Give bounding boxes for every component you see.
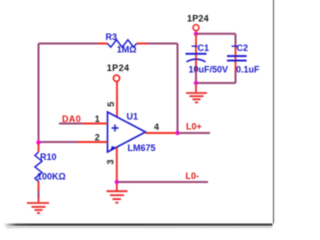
wire cap top rail <box>196 33 236 35</box>
ground (pin3) <box>107 184 128 203</box>
svg-text:4: 4 <box>154 122 159 132</box>
svg-text:5: 5 <box>106 102 116 107</box>
wire feedback vertical <box>177 44 179 134</box>
op-amp U1 <box>108 111 156 153</box>
pin 4 stub <box>146 132 178 134</box>
pin 1 stub <box>83 123 108 125</box>
frame right edge <box>273 0 275 224</box>
svg-text:10uF/50V: 10uF/50V <box>189 64 229 74</box>
svg-text:DA0: DA0 <box>62 114 81 124</box>
svg-text:C1: C1 <box>198 43 210 53</box>
capacitor C2 <box>227 43 260 74</box>
svg-text:L0+: L0+ <box>186 122 202 132</box>
svg-text:1MΩ: 1MΩ <box>117 44 137 54</box>
power port 1P24 (op-amp) <box>107 63 130 118</box>
resistor R10 <box>35 143 66 191</box>
capacitor C1 <box>186 34 229 74</box>
svg-text:L0-: L0- <box>186 171 200 181</box>
svg-text:R10: R10 <box>40 152 57 162</box>
resistor R3 <box>98 32 147 55</box>
pin 2 stub <box>78 141 108 143</box>
junction dot cap top <box>194 32 198 36</box>
wire top horizontal (corner to R3) <box>39 43 99 45</box>
wire C1 bottom <box>195 71 197 84</box>
svg-text:R3: R3 <box>106 32 118 42</box>
junction dot output <box>175 131 179 135</box>
wire R10 to ground <box>38 191 40 199</box>
junction dot pin3 <box>115 180 119 184</box>
junction dot cap bottom <box>194 81 198 85</box>
wire C2 bottom branch <box>235 71 237 83</box>
svg-text:0.1uF: 0.1uF <box>236 64 260 74</box>
junction dot R10/pin2 <box>36 140 40 144</box>
svg-text:1P24: 1P24 <box>187 14 209 24</box>
wire L0- <box>117 181 208 183</box>
svg-text:LM675: LM675 <box>128 143 156 153</box>
power port 1P24 (caps) <box>187 14 209 34</box>
wire C2 top branch <box>235 34 237 46</box>
svg-text:100KΩ: 100KΩ <box>37 172 66 182</box>
svg-text:C2: C2 <box>237 43 249 53</box>
pin 3 line <box>116 148 118 182</box>
wire L0+ <box>178 132 211 134</box>
svg-text:1: 1 <box>95 114 100 124</box>
wire cap bottom rail <box>196 82 236 84</box>
wire junction to pin2 <box>39 141 79 143</box>
svg-text:2: 2 <box>95 133 100 143</box>
wire left vertical <box>38 44 40 143</box>
wire R3 right to feedback corner <box>147 43 178 45</box>
svg-text:1P24: 1P24 <box>107 63 130 73</box>
arrow mark on lower edge <box>111 146 118 150</box>
svg-text:U1: U1 <box>127 111 139 121</box>
svg-text:3: 3 <box>106 159 116 164</box>
wire DA0 <box>59 123 83 125</box>
ground (R10) <box>27 197 49 213</box>
ground (caps) <box>186 85 207 102</box>
plus sign inside op-amp <box>112 125 119 132</box>
